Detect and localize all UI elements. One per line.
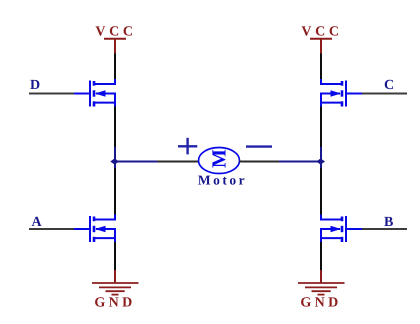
svg-text:GND: GND <box>94 296 135 311</box>
power VCC2 (right supply) <box>301 25 342 54</box>
motor M1 <box>199 148 240 174</box>
svg-text:C: C <box>384 78 394 93</box>
ground GND2 (right) <box>298 270 345 311</box>
wire Q2 source to ground <box>114 242 116 270</box>
svg-text:VCC: VCC <box>95 25 136 40</box>
svg-text:Motor: Motor <box>198 173 247 188</box>
wire Q4 source to ground <box>320 242 322 270</box>
transistor Q4 (low-side right, gate B) <box>320 215 362 243</box>
transistor Q3 (high-side right, gate C) <box>320 79 362 107</box>
node 1 (left motor terminal junction) <box>110 147 119 168</box>
transistor Q2 (low-side left, gate A) <box>74 215 116 243</box>
svg-text:GND: GND <box>300 296 341 311</box>
transistor Q1 (high-side left, gate D) <box>74 79 116 107</box>
power VCC1 (left supply) <box>95 25 136 54</box>
svg-text:M: M <box>209 149 231 168</box>
wire VCC2 to Q3 drain <box>320 54 322 80</box>
ground GND1 (left) <box>92 270 139 311</box>
node 2 (right motor terminal junction) <box>316 147 325 168</box>
wire B gate lead <box>362 228 407 230</box>
wire VCC1 to Q1 drain <box>114 54 116 80</box>
wire Q3 source to node 2 <box>320 107 322 148</box>
wire node 2 to Q4 drain <box>320 168 322 215</box>
svg-text:VCC: VCC <box>301 25 342 40</box>
wire node 2 to motor minus terminal <box>240 161 322 163</box>
polarity plus marker <box>178 138 197 155</box>
wire C gate lead <box>362 93 407 95</box>
wire node 1 to Q2 drain <box>114 168 116 215</box>
wire Q1 source to node 1 <box>114 107 116 148</box>
wire A gate lead <box>29 228 74 230</box>
wire D gate lead <box>29 93 74 95</box>
svg-text:A: A <box>32 215 43 230</box>
polarity minus marker <box>246 145 272 147</box>
svg-text:B: B <box>384 215 393 230</box>
svg-text:D: D <box>30 78 40 93</box>
wire node 1 to motor plus terminal <box>115 161 199 163</box>
